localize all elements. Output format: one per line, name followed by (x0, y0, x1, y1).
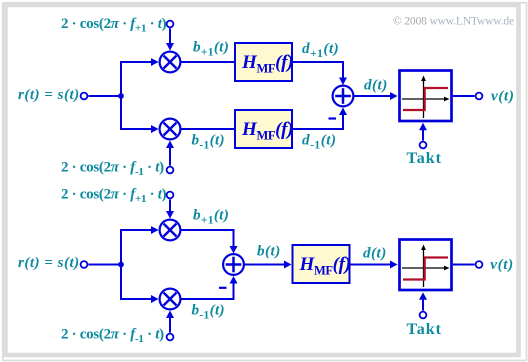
svg-text:r(t) = s(t): r(t) = s(t) (18, 86, 80, 103)
junction node (top diagram splitter) (118, 93, 124, 99)
svg-text:2 · cos(2π · f+1 · t): 2 · cos(2π · f+1 · t) (61, 187, 167, 206)
node: input terminal r(t) (top diagram) (81, 93, 88, 100)
svg-text:2 · cos(2π · f-1 · t): 2 · cos(2π · f-1 · t) (61, 327, 164, 346)
wire: H1 output to adder top (292, 62, 347, 85)
wire: multiplier M4 to adder bottom (bottom diagram) (180, 276, 238, 299)
svg-text:d-1(t): d-1(t) (302, 132, 337, 152)
node: output terminal v(t) (top diagram) (476, 93, 483, 100)
signal label v(t) (bottom diagram) (490, 256, 513, 273)
wire: junction down and into multiplier M2 (121, 96, 159, 133)
wire: input r(t) to junction (bottom diagram) (88, 264, 121, 266)
multiplier M1 (upper branch, top diagram) (160, 52, 181, 73)
node: carrier f-1 input terminal (bottom diagram) (167, 334, 174, 341)
value label 2*cos(2pi f-1 t) (bottom diagram, lower oscillator) (61, 327, 164, 346)
value label 2*cos(2pi f-1 t) (top diagram, lower oscillator) (61, 160, 164, 179)
svg-text:b-1(t): b-1(t) (192, 302, 225, 322)
signal label d(t) (bottom diagram) (363, 245, 387, 262)
svg-text:d(t): d(t) (363, 245, 387, 262)
decision block D2 (threshold detector, bottom diagram) (400, 240, 452, 291)
svg-text:b-1(t): b-1(t) (192, 132, 225, 152)
svg-text:b(t): b(t) (257, 243, 281, 260)
signal label b(t) (bottom diagram) (257, 243, 281, 260)
svg-text:© 2008 www.LNTwww.de: © 2008 www.LNTwww.de (393, 16, 514, 28)
node: carrier f+1 input terminal (bottom diagram) (167, 192, 174, 199)
matched filter block H1 HMF(f) (upper) (235, 43, 293, 81)
signal label b+1(t) (bottom diagram) (193, 207, 229, 227)
decision D2 vertical axis (421, 245, 426, 288)
signal label d(t) (top diagram) (364, 77, 388, 94)
node: output terminal v(t) (bottom diagram) (476, 261, 483, 268)
label Takt (bottom diagram) (407, 321, 442, 338)
node: carrier f+1 input terminal (top) (167, 21, 174, 28)
adder A2 (bottom diagram) (223, 254, 244, 275)
wire: multiplier M1 to matched filter H1 (180, 61, 235, 63)
signal label b-1(t) (bottom diagram) (192, 302, 225, 322)
label Takt (top diagram) (407, 150, 442, 167)
signal label r(t)=s(t) (bottom diagram input) (18, 254, 80, 271)
svg-text:v(t): v(t) (490, 256, 513, 273)
adder A1 (top diagram) (333, 86, 354, 107)
decision D2 red step characteristic (403, 258, 448, 280)
svg-text:r(t) = s(t): r(t) = s(t) (18, 254, 80, 271)
svg-text:v(t): v(t) (491, 88, 514, 105)
decision block D1 (threshold detector, top diagram) (400, 71, 452, 122)
svg-text:b+1(t): b+1(t) (193, 207, 229, 227)
svg-text:b+1(t): b+1(t) (193, 39, 229, 59)
wire: decision D2 output to v(t) terminal (453, 264, 475, 266)
decision D1 horizontal axis (402, 97, 450, 102)
wire: Takt clock into decision D2 (419, 292, 427, 310)
minus sign at adder lower input (bottom diagram) (219, 287, 227, 289)
wire: Takt clock into decision D1 (419, 123, 427, 141)
wire: carrier f-1 up into multiplier M2 (166, 141, 174, 166)
junction node (bottom diagram splitter) (118, 262, 124, 268)
node: input terminal r(t) (bottom diagram) (81, 261, 88, 268)
wire: input r(t) to junction (top diagram) (88, 95, 121, 97)
svg-text:d+1(t): d+1(t) (302, 40, 339, 60)
node: carrier f-1 input terminal (top diagram) (167, 167, 174, 174)
decision D2 horizontal axis (402, 266, 450, 271)
signal label v(t) (top diagram) (491, 88, 514, 105)
svg-text:2 · cos(2π · f+1 · t): 2 · cos(2π · f+1 · t) (61, 16, 167, 35)
signal label b-1(t) (top diagram) (192, 132, 225, 152)
svg-text:d(t): d(t) (364, 77, 388, 94)
wire: H3 output to decision block (bottom diagram) (350, 261, 398, 269)
wire: decision D1 output to v(t) terminal (453, 95, 475, 97)
wire: junction up and into multiplier M1 (121, 58, 159, 96)
decision D1 vertical axis (421, 76, 426, 119)
multiplier M2 (lower branch, top diagram) (160, 119, 181, 140)
svg-text:Takt: Takt (407, 150, 442, 167)
signal label d+1(t) (302, 40, 339, 60)
node: Takt terminal (top diagram) (420, 142, 427, 149)
signal label b+1(t) (top diagram) (193, 39, 229, 59)
svg-text:2 · cos(2π · f-1 · t): 2 · cos(2π · f-1 · t) (61, 160, 164, 179)
value label 2*cos(2pi f+1 t) (bottom diagram, upper oscillator) (61, 187, 167, 206)
wire: multiplier M2 to matched filter H2 (180, 128, 235, 130)
svg-text:Takt: Takt (407, 321, 442, 338)
wire: adder to decision block (top diagram) (354, 92, 398, 100)
wire: H2 output to adder bottom (292, 108, 347, 130)
multiplier M3 (upper branch, bottom diagram) (160, 220, 181, 241)
signal label d-1(t) (302, 132, 337, 152)
node: Takt terminal (bottom diagram) (420, 312, 427, 319)
wire: junction down and into multiplier M4 (121, 265, 159, 304)
matched filter block H2 HMF(f) (lower) (235, 110, 293, 148)
minus sign at adder lower input (top diagram) (329, 117, 337, 119)
matched filter block H3 HMF(f) (bottom diagram) (293, 245, 351, 283)
value label 2*cos(2pi f+1 t) (top oscillator, upper) (61, 16, 167, 35)
wire: carrier f+1 down into multiplier M1 (166, 28, 174, 50)
wire: carrier f+1 down into multiplier M3 (166, 199, 174, 218)
wire: multiplier M3 to adder top (bottom diagram) (180, 230, 238, 254)
wire: adder A2 to matched filter H3 (245, 261, 292, 269)
wire: carrier f-1 up into multiplier M4 (166, 311, 174, 333)
wire: junction up and into multiplier M3 (121, 226, 159, 265)
multiplier M4 (lower branch, bottom diagram) (160, 289, 181, 310)
copyright notice (393, 16, 514, 28)
decision D1 red step characteristic (403, 88, 448, 110)
signal label r(t)=s(t) (top diagram input) (18, 86, 80, 103)
